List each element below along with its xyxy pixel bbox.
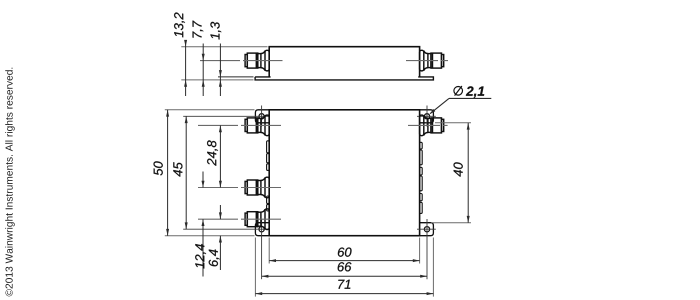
crosshair horiz bottom-left hole + ext for 45	[183, 228, 268, 230]
dimension 40 (clearance between tabs, right side)	[467, 123, 469, 223]
mounting hole bottom-right (dia 2,1)	[424, 227, 429, 232]
crosshair vert bottom-right hole + ext for 66	[426, 219, 428, 279]
mounting tab bottom-left	[255, 223, 269, 236]
side view: right connector centerline	[406, 60, 448, 62]
dimension 12,4 (port2 to port3)	[202, 172, 204, 188]
side view: right SMA connector	[420, 50, 444, 71]
side view: left SMA connector	[245, 50, 269, 71]
side view: left connector centerline	[200, 60, 283, 62]
mounting tab top-left	[255, 110, 269, 123]
ext line: flange bottom	[181, 79, 253, 81]
side view: filter body (open bottom)	[269, 47, 419, 77]
main view: filter body outline	[269, 110, 419, 236]
seam bumps on left body edge	[267, 141, 270, 211]
crosshair horiz bottom-right hole	[417, 228, 436, 230]
dimension 45 (hole spacing vertical)	[185, 116, 187, 229]
dimension 13,2 (overall height)	[185, 44, 187, 97]
mounting hole bottom-left (dia 2,1)	[259, 227, 264, 232]
main view: SMA connector output port (right)	[420, 115, 444, 136]
ext: body top to 50-dim	[165, 109, 255, 111]
crosshair horiz top-left hole + ext for 45	[183, 115, 268, 117]
dimension 60 (body width)	[269, 260, 419, 262]
dimension 24,8 (port1 to port2)	[219, 125, 221, 187]
dimension 66 (hole spacing horizontal)	[262, 275, 427, 277]
main view: SMA connector port 2 (middle-left)	[245, 177, 269, 198]
callout dia 2,1 text	[454, 86, 463, 96]
copyright notice (rotated)	[5, 68, 15, 297]
dimension 7,7 (centerline height)	[202, 44, 204, 97]
mounting tab top-right	[420, 110, 434, 123]
centerline port 1	[198, 124, 283, 126]
seam bumps on right body edge	[420, 142, 423, 213]
dimension 6,4 (port3 to body bottom)	[219, 205, 221, 219]
dimension 1,3 (flange thickness)	[219, 44, 221, 97]
dimension 71 (overall width)	[255, 293, 433, 295]
ext: tab outer left down for 71	[254, 238, 256, 297]
centerline port 2	[198, 187, 283, 189]
ext: body left edge down for 60	[268, 238, 270, 264]
crosshair horiz top-right hole	[417, 115, 436, 117]
ext: body bottom to 50-dim	[165, 235, 255, 237]
ext line: side body top	[181, 46, 267, 48]
centerline port 3	[198, 218, 283, 220]
callout dia 2,1 leader line and arrow	[449, 97, 491, 99]
ext: bottom tab top edge to 40-dim	[431, 222, 471, 224]
crosshair vert top-right hole	[426, 106, 428, 127]
mounting hole top-right (dia 2,1)	[424, 114, 429, 119]
ext line: flange top	[218, 76, 254, 78]
crosshair vert bottom-left hole + ext for 66	[261, 219, 263, 279]
main view: SMA connector port 3 (bottom-left)	[245, 209, 269, 230]
mounting tab bottom-right	[420, 223, 434, 236]
mounting hole top-left (dia 2,1)	[259, 114, 264, 119]
ext: body right edge down for 60	[419, 238, 421, 264]
centerline right port	[408, 124, 448, 126]
main view: SMA connector port 1 (top-left)	[245, 115, 269, 136]
ext: top tab bottom edge to 40-dim	[435, 122, 471, 124]
side view: mounting flange plate (feet + bottom)	[255, 77, 433, 80]
ext: tab outer right down for 71	[432, 238, 434, 297]
crosshair vert top-left hole	[261, 106, 263, 127]
dimension 50 (body height)	[167, 110, 169, 236]
